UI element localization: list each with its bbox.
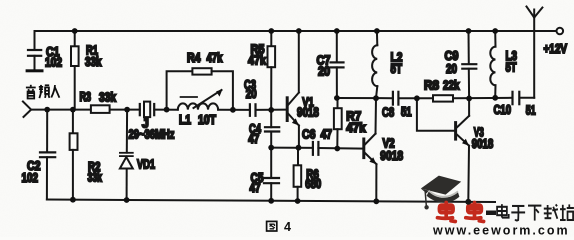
node rail C5 — [268, 198, 274, 204]
wire top supply rail — [35, 30, 557, 32]
capacitor C8 — [393, 92, 399, 105]
L1 core bar — [181, 96, 197, 98]
svg-text:47k: 47k — [346, 121, 366, 135]
wire L1 right to C3 — [218, 109, 250, 111]
svg-text:20: 20 — [318, 65, 330, 79]
svg-text:C9: C9 — [445, 49, 459, 63]
resistor R4 parallel loop — [167, 68, 233, 110]
node V1 base — [268, 107, 274, 113]
ground — [26, 69, 44, 72]
L1 adjust arrow — [194, 89, 223, 108]
node rail VD1 — [124, 197, 130, 203]
wire mid rail y98 — [337, 97, 393, 99]
node R1 R2 R3 — [70, 107, 76, 113]
label 图4 figure 4 — [267, 221, 277, 231]
svg-text:22k: 22k — [443, 79, 460, 93]
svg-text:102: 102 — [22, 171, 39, 185]
node top rail C7 — [334, 28, 340, 34]
svg-text:10T: 10T — [198, 113, 216, 127]
svg-text:+12V: +12V — [544, 42, 568, 56]
wire crystal to L1 node — [154, 109, 178, 111]
transistor V2 — [364, 98, 377, 201]
node L1 left — [164, 107, 170, 113]
watermark 电子下载站 — [497, 204, 574, 220]
inductor L1 — [178, 103, 218, 109]
node top rail V1c — [296, 28, 302, 34]
antenna — [527, 7, 543, 98]
watermark dash — [486, 211, 496, 216]
node VD1 — [124, 107, 130, 113]
node L3 C10 — [492, 95, 498, 101]
capacitor C1 — [28, 31, 41, 69]
svg-text:L1: L1 — [179, 113, 191, 127]
input terminal arrow 音频入 — [23, 102, 31, 117]
svg-text:680: 680 — [305, 177, 321, 191]
wire emitter row y148 — [271, 147, 313, 149]
node rail R2 — [70, 197, 76, 203]
node top rail L2 — [374, 28, 380, 34]
node top rail R1 — [72, 28, 78, 34]
label 音频入 audio input — [26, 85, 60, 99]
resistor R5 — [268, 31, 276, 110]
svg-text:33k: 33k — [88, 171, 103, 185]
svg-text:51: 51 — [401, 105, 412, 119]
watermark 虫虫 red — [438, 203, 484, 222]
node R8 V3 base — [414, 95, 420, 101]
node rail V3e — [465, 199, 471, 205]
svg-text:C8: C8 — [382, 106, 394, 120]
node input C2 — [44, 107, 50, 113]
wire bottom ground rail — [47, 200, 495, 203]
node C4 C5 C6 — [268, 145, 274, 151]
svg-text:VD1: VD1 — [137, 157, 155, 171]
resistor R3 — [91, 105, 110, 113]
svg-text:9018: 9018 — [380, 149, 403, 163]
node rail V3e redraw on top — [465, 199, 471, 205]
diode VD1 varactor — [120, 110, 133, 200]
svg-text:9018: 9018 — [472, 137, 494, 151]
resistor R7 — [334, 98, 342, 149]
capacitor C9 — [462, 31, 476, 98]
resistor R2 — [70, 110, 78, 200]
svg-text:29~36MHz: 29~36MHz — [129, 128, 175, 142]
capacitor C7 — [331, 31, 344, 98]
node top rail C9 — [466, 28, 472, 34]
inductor L3 — [490, 31, 495, 98]
svg-text:47k: 47k — [248, 54, 266, 68]
node L1 right — [230, 107, 236, 113]
svg-text:R3: R3 — [80, 90, 92, 104]
capacitor C10 — [513, 92, 520, 104]
svg-text:4: 4 — [284, 220, 291, 234]
svg-text:47: 47 — [321, 128, 333, 142]
node L2 V2c — [373, 95, 379, 101]
svg-text:R8: R8 — [424, 79, 439, 93]
svg-text:33k: 33k — [99, 91, 116, 105]
svg-text:102: 102 — [45, 56, 62, 70]
svg-text:C10: C10 — [494, 103, 512, 117]
+12V terminal — [557, 28, 564, 35]
resistor R1 — [71, 31, 79, 110]
wire main signal line left — [31, 109, 140, 111]
capacitor C6 — [313, 142, 319, 155]
node top rail L3 — [492, 28, 498, 34]
capacitor C3 — [250, 104, 256, 116]
wire C3 to V1 base — [256, 109, 287, 111]
node V1e R6 — [296, 145, 302, 151]
capacitor C4 — [265, 110, 279, 148]
node R7 base row — [334, 146, 340, 152]
svg-text:51: 51 — [526, 103, 536, 117]
crystal J — [140, 102, 154, 118]
svg-text:www.eeworm.com: www.eeworm.com — [432, 224, 570, 238]
inductor L2 — [372, 31, 377, 98]
svg-text:20: 20 — [246, 87, 257, 101]
wire V3 base loop — [417, 98, 456, 131]
transistor V1 — [287, 31, 299, 148]
svg-text:20: 20 — [446, 62, 457, 76]
capacitor C5 — [264, 148, 279, 201]
node R8 V3 collector — [466, 96, 472, 102]
node rail R6 — [295, 198, 301, 204]
capacitor C2 — [40, 110, 55, 200]
node rail V2e — [373, 198, 379, 204]
svg-text:C6: C6 — [302, 128, 316, 142]
svg-text:47k: 47k — [207, 51, 223, 65]
svg-text:47: 47 — [250, 181, 261, 195]
node top rail R5 — [268, 28, 274, 34]
watermark graduation cap — [421, 176, 461, 210]
svg-text:5T: 5T — [391, 62, 403, 76]
svg-text:R4: R4 — [187, 51, 201, 65]
resistor R8 — [433, 95, 453, 101]
resistor R6 — [294, 148, 302, 201]
svg-text:5T: 5T — [506, 61, 517, 75]
transistor V3 — [456, 98, 470, 201]
svg-text:47: 47 — [248, 132, 259, 146]
svg-text:9018: 9018 — [297, 106, 319, 120]
node C7 R7 — [334, 95, 340, 101]
svg-text:33k: 33k — [85, 55, 102, 69]
